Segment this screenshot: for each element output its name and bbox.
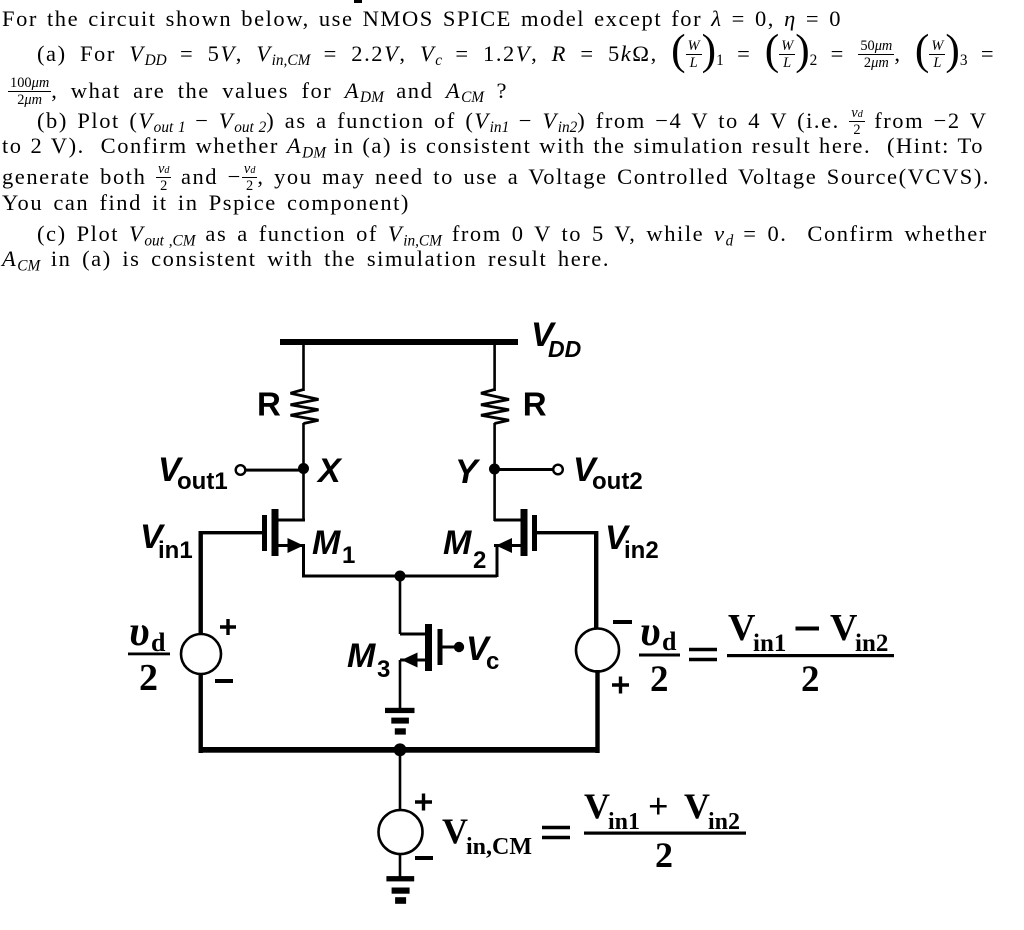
- svg-text:V: V: [684, 786, 710, 826]
- wire: common node down to M3 drain: [399, 576, 402, 634]
- svg-text:2: 2: [473, 547, 486, 574]
- wire: -vd/2 source to bottom rail: [595, 670, 599, 753]
- VDD label: [531, 316, 581, 362]
- svg-text:out1: out1: [177, 468, 228, 495]
- formula equals sign: [689, 650, 717, 660]
- svg-text:X: X: [316, 452, 343, 490]
- svg-text:d: d: [662, 627, 677, 656]
- node X dot: [298, 463, 309, 474]
- vd/2 value label: [128, 609, 170, 699]
- wire: VDD rail to right resistor R: [493, 344, 496, 391]
- ground (Vin,CM): [386, 876, 414, 904]
- Vin1 label: [140, 518, 193, 564]
- wire: bottom node to Vin,CM source: [399, 752, 402, 810]
- vd/2 source (left, circle): [181, 634, 221, 674]
- problem text line 2: [37, 39, 995, 71]
- wire: left resistor to node X: [302, 423, 305, 468]
- wire: VDD rail to left resistor R: [302, 344, 305, 391]
- wire: M3 gate to Vc node: [442, 646, 458, 649]
- wire: Vin1 down to vd/2 source: [199, 531, 203, 634]
- svg-text:M: M: [312, 524, 341, 562]
- svg-text:in2: in2: [624, 537, 659, 564]
- node X label: [316, 452, 343, 490]
- svg-text:in2: in2: [855, 630, 888, 657]
- vd/2 source + sign: [220, 619, 236, 635]
- svg-text:2: 2: [139, 657, 158, 699]
- svg-text:+: +: [648, 786, 669, 826]
- node Y dot: [489, 464, 500, 475]
- Vc label: [466, 630, 499, 675]
- resistor R (right): [481, 390, 509, 424]
- cropped heading remnant: [354, 0, 362, 3]
- Vc node dot: [454, 642, 464, 652]
- svg-text:R: R: [257, 386, 281, 423]
- wire: node Y down to M2 drain: [493, 469, 496, 521]
- -vd/2 source (right, circle): [576, 629, 619, 672]
- wire: right resistor to node Y: [493, 423, 496, 469]
- wire: node Y to Vout2 terminal: [499, 468, 553, 471]
- bottom rail node dot: [394, 743, 407, 756]
- problem text line 7: [2, 192, 410, 215]
- Vin,CM source (circle): [379, 810, 423, 854]
- svg-text:υ: υ: [640, 609, 661, 655]
- svg-text:V: V: [442, 811, 468, 851]
- wire: Vout1 terminal to node X: [246, 469, 299, 472]
- formula (Vin1 - Vin2) numerator: [728, 607, 888, 657]
- svg-text:M: M: [347, 637, 376, 675]
- formula vd/2 : denominator 2: [650, 659, 669, 700]
- problem text line 8: [37, 223, 988, 246]
- formula vd/2 : fraction bar: [639, 654, 680, 657]
- formula vd/2 = (Vin1-Vin2)/2 : vd numerator: [640, 609, 677, 656]
- problem text line 5: [2, 135, 984, 158]
- svg-text:M: M: [443, 524, 472, 562]
- svg-text:in1: in1: [158, 537, 193, 564]
- svg-text:in,CM: in,CM: [466, 834, 532, 860]
- problem text line 1: [2, 8, 842, 31]
- svg-text:V: V: [584, 786, 610, 826]
- formula Vin,CM equals sign: [542, 828, 570, 838]
- Vout1 label: [158, 451, 228, 495]
- R label (left): [257, 386, 281, 423]
- VDD power rail: [280, 339, 518, 345]
- -vd/2 source + sign: [612, 677, 629, 694]
- ground (M3 source): [385, 708, 415, 735]
- svg-text:V: V: [830, 607, 858, 649]
- svg-text:1: 1: [342, 542, 355, 569]
- Vin2 label: [605, 519, 659, 564]
- Vout1 terminal (open circle): [236, 465, 246, 475]
- svg-text:out2: out2: [592, 468, 643, 495]
- svg-text:2: 2: [801, 659, 820, 700]
- M1 label: [312, 524, 355, 569]
- wire: M3 source down to ground: [399, 660, 402, 708]
- common source rail: [302, 575, 497, 578]
- wire: node X down to M1 drain: [302, 468, 305, 521]
- bottom rail: [199, 747, 600, 753]
- wire: vd/2 source to bottom rail: [199, 673, 203, 753]
- svg-text:in2: in2: [708, 809, 740, 835]
- M3 label: [347, 637, 390, 683]
- -vd/2 source - sign: [613, 620, 632, 624]
- wire: M2 gate to Vin2: [537, 531, 597, 534]
- Vout2 terminal (open circle): [553, 465, 563, 475]
- svg-text:in1: in1: [753, 630, 786, 657]
- formula fraction bar: [727, 654, 894, 657]
- svg-text:Y: Y: [455, 453, 481, 491]
- wire: M1 gate to Vin1: [200, 531, 262, 534]
- svg-text:c: c: [486, 648, 499, 675]
- Vout2 label: [573, 451, 643, 495]
- wire: M1 source down to common rail: [302, 546, 305, 577]
- wire: Vin,CM source to ground: [399, 853, 402, 877]
- wire: Vin2 down to -vd/2 source: [594, 531, 598, 628]
- Vin,CM source + sign: [415, 794, 432, 811]
- R label (right): [523, 386, 547, 423]
- resistor R (left): [291, 390, 319, 424]
- transistor M2: [494, 509, 537, 556]
- common source node dot: [395, 571, 406, 582]
- Vin,CM source - sign: [415, 856, 433, 860]
- svg-text:V: V: [728, 607, 756, 649]
- problem text line 6: [2, 162, 990, 194]
- svg-text:υ: υ: [129, 609, 150, 655]
- problem text line 9: [2, 248, 610, 271]
- svg-text:DD: DD: [548, 336, 581, 362]
- svg-text:R: R: [523, 386, 547, 423]
- svg-text:in1: in1: [608, 809, 640, 835]
- transistor M3: [400, 624, 443, 671]
- svg-text:3: 3: [377, 656, 390, 683]
- problem text line 3: [8, 76, 508, 108]
- formula Vin,CM denominator 2: [655, 835, 673, 875]
- svg-text:2: 2: [655, 835, 673, 875]
- formula (Vin1 + Vin2) numerator: [584, 786, 740, 835]
- formula Vin,CM fraction bar: [584, 832, 746, 835]
- transistor M1: [262, 509, 305, 556]
- formula Vin,CM label: [442, 811, 532, 860]
- svg-text:2: 2: [650, 659, 669, 700]
- M2 label: [443, 524, 486, 574]
- problem text line 4: [37, 106, 988, 138]
- vd/2 source - sign: [215, 679, 233, 683]
- wire: M2 source down to common rail: [496, 546, 499, 577]
- node Y label: [455, 453, 481, 491]
- formula denominator 2: [801, 659, 820, 700]
